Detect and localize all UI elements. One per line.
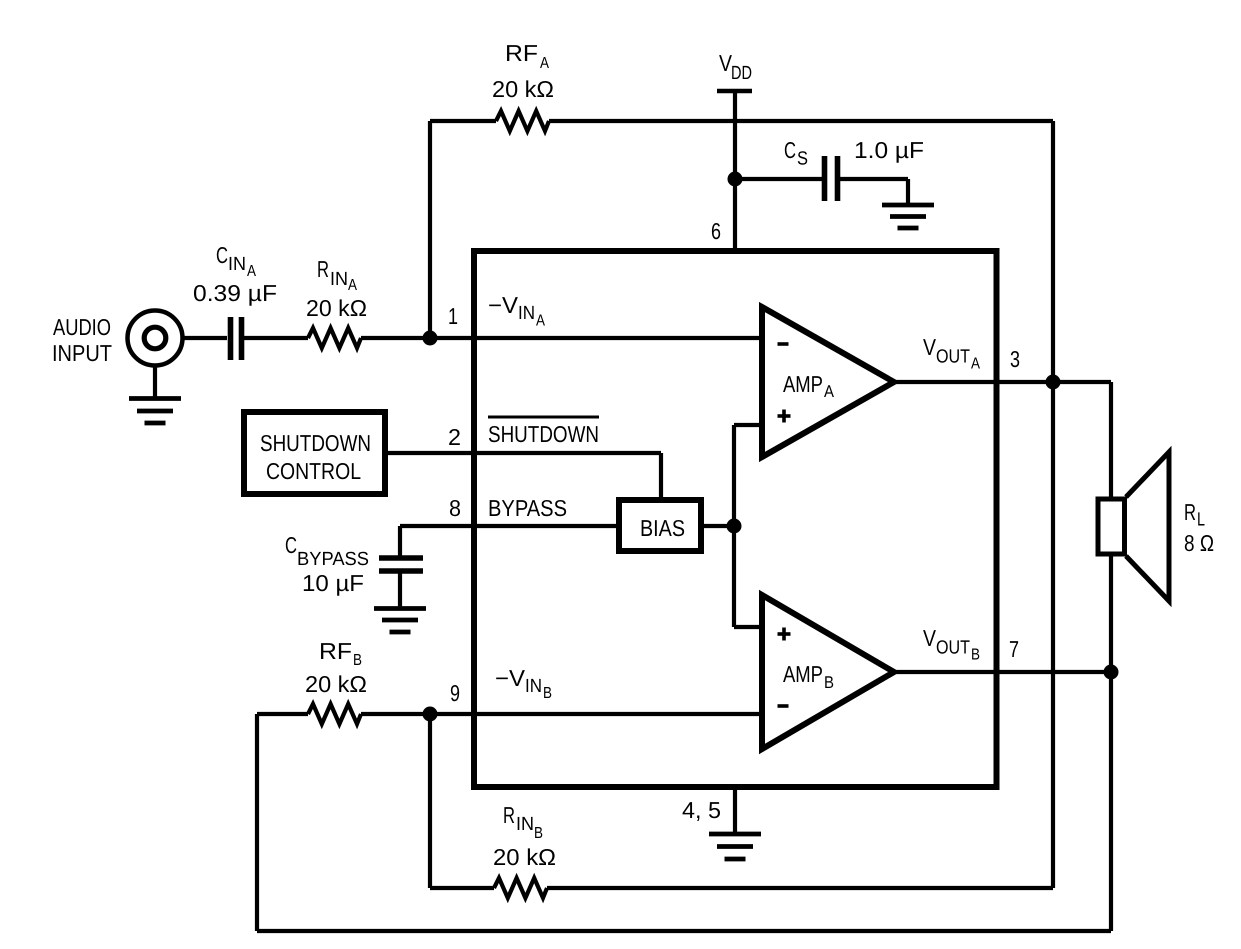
svg-text:20 kΩ: 20 kΩ bbox=[492, 76, 554, 102]
wire pins 45 to ground bbox=[733, 787, 737, 836]
node 1 junction bbox=[423, 331, 438, 346]
svg-text:20 kΩ: 20 kΩ bbox=[306, 295, 367, 321]
svg-text:BYPASS: BYPASS bbox=[488, 495, 567, 521]
resistor RFA bbox=[496, 111, 549, 131]
svg-text:1.0 µF: 1.0 µF bbox=[854, 137, 924, 163]
wire pin 2 bbox=[385, 453, 661, 497]
svg-text:AUDIOINPUT: AUDIOINPUT bbox=[52, 314, 112, 366]
op-amp AMPB bbox=[762, 595, 894, 749]
wire connector to ground bbox=[153, 366, 157, 400]
wire CS run bbox=[735, 179, 908, 205]
capacitor CS bbox=[825, 156, 838, 201]
svg-text:1: 1 bbox=[448, 303, 458, 329]
svg-text:SHUTDOWN: SHUTDOWN bbox=[488, 421, 599, 447]
wire RINB run bbox=[430, 886, 1053, 890]
wire bypass bbox=[400, 526, 616, 558]
svg-text:BIAS: BIAS bbox=[640, 515, 685, 541]
ground CS bbox=[882, 205, 934, 228]
op-amp AMPA bbox=[762, 307, 894, 457]
svg-text:2: 2 bbox=[448, 424, 461, 450]
svg-text:4, 5: 4, 5 bbox=[682, 797, 721, 823]
svg-text:20 kΩ: 20 kΩ bbox=[493, 844, 556, 870]
ground CBYPASS bbox=[374, 609, 426, 633]
wire RF_A top run bbox=[430, 121, 1053, 338]
minus sign AMPB bbox=[778, 704, 789, 708]
power VDD bbox=[717, 91, 752, 251]
BIAS box bbox=[619, 500, 701, 551]
audio input connector bbox=[128, 311, 183, 366]
pin name SHUTDOWN with overline bbox=[488, 417, 599, 447]
wire input chain bbox=[183, 336, 762, 340]
IC U1 box bbox=[474, 251, 997, 787]
resistor RFB bbox=[308, 704, 361, 724]
node bias junction bbox=[727, 519, 742, 534]
wire cap to ground bbox=[398, 571, 402, 608]
svg-text:6: 6 bbox=[711, 218, 721, 244]
wire bias output bbox=[701, 425, 763, 627]
node 9 junction bbox=[423, 707, 438, 722]
wire VOUTB bbox=[894, 670, 1111, 674]
plus sign AMPA bbox=[778, 410, 791, 423]
resistor RINB bbox=[494, 878, 547, 898]
wire right vertical bbox=[1051, 121, 1055, 888]
shutdown control box bbox=[244, 412, 385, 494]
svg-text:8 Ω: 8 Ω bbox=[1184, 530, 1214, 556]
svg-text:10 µF: 10 µF bbox=[302, 570, 364, 596]
svg-text:8: 8 bbox=[449, 495, 461, 521]
svg-text:20 kΩ: 20 kΩ bbox=[305, 671, 367, 697]
wire bottom run bbox=[257, 929, 1111, 933]
speaker RL bbox=[1098, 452, 1169, 601]
wire node9 down bbox=[428, 714, 432, 888]
node 7 junction bbox=[1104, 665, 1119, 680]
node 6 junction bbox=[728, 172, 743, 187]
ground pins 45 bbox=[709, 834, 761, 859]
wire speaker feed bbox=[1109, 382, 1113, 931]
svg-text:7: 7 bbox=[1009, 636, 1019, 662]
svg-text:0.39 µF: 0.39 µF bbox=[193, 280, 277, 306]
capacitor CINA bbox=[231, 317, 242, 360]
wire VOUTA bbox=[894, 380, 1111, 384]
pin 9 wire RF_B run bbox=[257, 714, 762, 931]
svg-text:3: 3 bbox=[1010, 346, 1020, 372]
svg-text:9: 9 bbox=[450, 680, 460, 706]
node 3 junction bbox=[1046, 375, 1061, 390]
plus sign AMPB bbox=[778, 628, 791, 641]
resistor RINA bbox=[308, 328, 361, 348]
minus sign AMPA bbox=[778, 342, 789, 346]
capacitor CBYPASS bbox=[379, 558, 423, 571]
ground audio input bbox=[129, 399, 181, 424]
